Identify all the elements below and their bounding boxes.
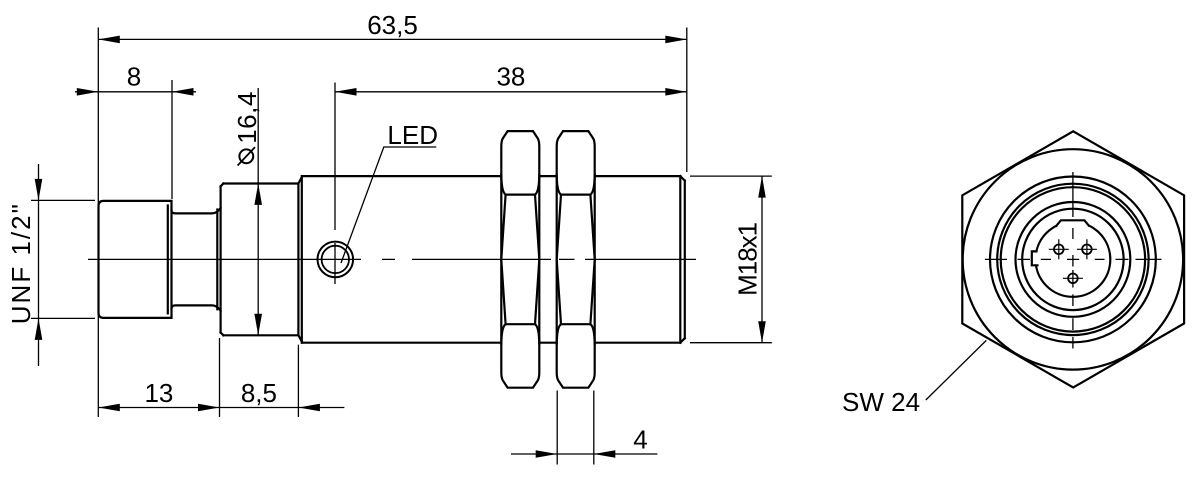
pin 2 (upper right) (1077, 239, 1097, 259)
dim line dia 16,4 (vertical) (257, 88, 259, 335)
neck bottom edge with fillets (172, 305, 221, 310)
svg-text:UNF 1/2": UNF 1/2" (6, 202, 36, 324)
nose plug UNF 1/2" outline (99, 201, 172, 318)
outer ring (990, 177, 1156, 343)
extension line left (x=98.3) (97, 28, 99, 418)
right view horizontal centerline (dash-dot) (985, 258, 1162, 260)
middle ring b (1001, 187, 1145, 331)
extension line nose right (x=172) (171, 80, 173, 199)
dim line 8 (75, 91, 196, 93)
4 arrows (outside) (536, 450, 558, 458)
extension line collar left bottom (x=219.5) (219, 338, 221, 417)
collar bottom edge (223, 334, 298, 336)
dim line 63,5 (98, 38, 687, 40)
body chamfer boundary line left (301, 176, 303, 343)
hexagon SW24 (962, 131, 1184, 387)
svg-text:M18x1: M18x1 (733, 222, 763, 296)
svg-text:13: 13 (144, 378, 173, 408)
hex nut 2 on thread (557, 131, 595, 388)
body left chamfer diagonals (299, 176, 303, 342)
collar left face (221, 184, 224, 336)
dia 16,4 arrows (254, 183, 262, 205)
UNF arrows (outside) (35, 179, 43, 201)
body top edge (302, 175, 680, 177)
dim line M18 (vertical) (761, 176, 763, 343)
collar top edge (223, 182, 298, 184)
M18 arrows (inside) (758, 176, 766, 198)
13 arrows (98, 404, 120, 412)
connector outer circle (1016, 202, 1131, 317)
svg-text:SW 24: SW 24 (842, 387, 920, 417)
body right end face (684, 181, 686, 339)
svg-text:LED: LED (387, 120, 438, 150)
38 arrows (335, 88, 357, 96)
leader LED (341, 147, 436, 263)
insert left keyway (1032, 251, 1042, 265)
chamfer circle (963, 149, 1183, 369)
extension line right end (x=686.8) (686, 28, 688, 173)
neck top edge with fillets (172, 208, 221, 213)
8,5 right arrow (outside) (298, 404, 320, 412)
dim line 38 (335, 91, 687, 93)
connector insert circle (1036, 222, 1111, 297)
body right chamfer diagonals (680, 176, 685, 343)
extension lines nut 2 (x=557.2 / x=593.8) (557, 391, 594, 465)
diameter symbol of 16,4 (238, 147, 255, 165)
nose end chamfer boundary line (167, 206, 169, 314)
8 arrows (outside) (77, 88, 99, 96)
arrowheads (35, 36, 766, 458)
pin 1 (upper left) (1049, 239, 1069, 259)
right view vertical centerline (dash-dot) (1072, 172, 1074, 349)
leader SW 24 (926, 340, 987, 400)
vertical centerline through LED / thread start extension (334, 83, 336, 285)
body bottom edge (302, 342, 680, 344)
dim line UNF (vertical) (38, 164, 40, 366)
insert top coding notch (1056, 214, 1090, 227)
LED inner circle (322, 246, 349, 273)
svg-text:16,4: 16,4 (232, 91, 262, 144)
neck fillet boundary line (216, 210, 218, 310)
svg-text:8,5: 8,5 (241, 378, 277, 408)
dim line 4 (511, 453, 657, 455)
svg-text:8: 8 (127, 62, 141, 92)
LED outer circle (318, 242, 354, 278)
svg-text:38: 38 (496, 62, 525, 92)
svg-text:4: 4 (633, 425, 647, 455)
extension lines UNF (horizontal) (31, 200, 95, 318)
collar right face / body left end face (297, 184, 299, 336)
middle ring a (997, 184, 1148, 335)
extension lines M18 (horizontal) (690, 176, 772, 343)
63,5 arrows (98, 36, 120, 44)
dim line 13 / 8,5 with right tail (98, 407, 344, 409)
body chamfer boundary line right (679, 176, 681, 343)
pin 3 (bottom) (1063, 274, 1083, 284)
hex nut 1 on thread (501, 131, 539, 388)
LED indicator window (318, 242, 354, 278)
svg-text:63,5: 63,5 (367, 10, 418, 40)
connector inner circle (1022, 209, 1123, 310)
extension line collar right bottom (x=298.4) (297, 345, 299, 417)
main horizontal centerline left view (dash-dot) (88, 258, 696, 260)
